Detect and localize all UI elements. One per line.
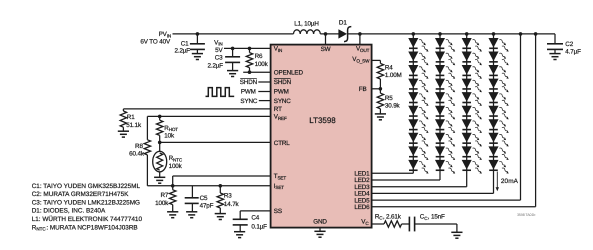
svg-text:C3: C3 — [215, 55, 223, 62]
svg-text:60.4k: 60.4k — [129, 151, 145, 158]
C4 value label — [251, 215, 267, 231]
svg-text:OPENLED: OPENLED — [274, 69, 304, 76]
wire TSET — [173, 176, 271, 186]
R3 value label — [224, 193, 240, 208]
resistor RC — [384, 221, 402, 227]
pin label RT — [274, 106, 282, 113]
resistor R8 — [144, 140, 150, 186]
wire VIN 5V to pin — [224, 47, 271, 49]
ground GND pin — [314, 228, 325, 237]
svg-text:R3: R3 — [224, 193, 232, 200]
svg-text:SHDN: SHDN — [240, 79, 258, 86]
resistor R5 — [377, 89, 383, 114]
PWM waveform symbol — [206, 88, 235, 97]
wire LED5 — [372, 199, 521, 201]
svg-text:SYNC: SYNC — [240, 98, 257, 105]
net VIN 5V label — [214, 39, 223, 54]
wire VOUT pin stub — [359, 34, 361, 45]
svg-text:SS: SS — [274, 208, 282, 215]
wire VREF — [147, 115, 270, 117]
wire SW pin stub — [325, 34, 327, 45]
svg-text:C5: C5 — [200, 195, 208, 202]
L1 value label — [294, 20, 319, 27]
svg-text:SHDN: SHDN — [274, 79, 292, 86]
resistor R1 — [118, 111, 129, 137]
pin label FB — [359, 86, 367, 93]
wire SS — [240, 211, 270, 219]
svg-text:R6: R6 — [255, 53, 263, 60]
R6 value label — [255, 53, 269, 68]
LED string 4 (10 LEDs) — [489, 32, 509, 193]
input label SYNC — [240, 98, 257, 105]
pin label VREF — [274, 114, 287, 121]
svg-text:5V: 5V — [215, 47, 223, 54]
capacitor CC — [409, 217, 414, 232]
svg-text:SW: SW — [321, 46, 331, 53]
wire VC to RC — [372, 223, 384, 225]
C5 value label — [200, 195, 214, 209]
svg-text:PWM: PWM — [241, 89, 256, 96]
wire VREF corner to R8 — [146, 116, 148, 139]
node RHOT top junction — [158, 115, 162, 119]
pin label SYNC — [274, 98, 291, 105]
pin label PWM — [274, 89, 289, 96]
svg-text:1.00M: 1.00M — [385, 72, 402, 79]
wire LED5 string stub — [519, 32, 523, 200]
wire CC to ground — [415, 224, 457, 232]
svg-text:R4: R4 — [385, 64, 393, 71]
node R3 junction — [219, 184, 223, 188]
wire LED3 — [372, 186, 467, 188]
pin label SS — [274, 208, 282, 215]
svg-text:RNTC : MURATA NCP18WF104J03RB: RNTC : MURATA NCP18WF104J03RB — [32, 224, 138, 231]
resistor R4 — [377, 63, 383, 88]
pin label LED6 — [354, 204, 370, 211]
svg-text:C2: MURATA GRM32ER71H475K: C2: MURATA GRM32ER71H475K — [32, 191, 129, 198]
node R6/OPENLED junction — [248, 70, 252, 74]
wire LED1 — [372, 172, 414, 174]
wire FB — [372, 88, 381, 90]
svg-text:C4: C4 — [251, 215, 259, 222]
svg-text:2.2µF: 2.2µF — [175, 48, 191, 55]
wire RT — [123, 109, 270, 111]
pin label LED5 — [354, 197, 370, 204]
wire SYNC stub — [259, 100, 271, 102]
wire RC to CC — [402, 223, 410, 225]
capacitor C1 — [190, 34, 205, 60]
capacitor C5 — [185, 186, 199, 218]
svg-text:SYNC: SYNC — [274, 98, 291, 105]
node SW junction — [324, 32, 328, 36]
wire LED2 — [372, 179, 440, 181]
svg-text:C2: C2 — [565, 41, 573, 48]
svg-text:LED6: LED6 — [354, 204, 370, 211]
svg-text:D1: DIODES, INC. B240A: D1: DIODES, INC. B240A — [32, 208, 106, 215]
node R6 junction — [248, 47, 252, 51]
svg-text:4.7µF: 4.7µF — [565, 49, 581, 56]
svg-text:PWM: PWM — [274, 89, 289, 96]
svg-text:D1: D1 — [339, 19, 347, 26]
LED string 2 (10 LEDs) — [436, 32, 456, 180]
svg-text:LT3598: LT3598 — [309, 116, 336, 125]
pin label LED4 — [354, 191, 370, 198]
wire PWM stub — [258, 91, 270, 93]
watermark — [517, 213, 535, 217]
node FB junction — [379, 87, 383, 91]
node VOUT junction — [358, 32, 362, 36]
current arrow 20mA — [496, 172, 499, 192]
svg-text:L1, 10µH: L1, 10µH — [294, 20, 319, 27]
R7 value label — [155, 192, 169, 207]
wire VOUT rail right segment — [348, 33, 555, 35]
R4 value label — [385, 64, 402, 79]
input label SHDN(bar) — [240, 79, 258, 87]
wire LED4 — [372, 192, 494, 194]
pin label SW — [321, 46, 331, 53]
pin label VO_SW — [352, 56, 370, 63]
svg-text:RT: RT — [274, 106, 282, 113]
pin label ISET — [274, 183, 284, 190]
svg-text:14.7k: 14.7k — [224, 201, 240, 208]
svg-text:51.1k: 51.1k — [126, 122, 142, 129]
resistor R6 — [246, 48, 252, 72]
RC value label — [375, 213, 402, 220]
resistor RHOT — [157, 116, 163, 142]
R1 value label — [126, 114, 142, 129]
node R7 junction — [171, 184, 175, 188]
svg-text:20mA: 20mA — [501, 178, 519, 185]
RNTC value label — [169, 155, 183, 170]
svg-text:6V TO 40V: 6V TO 40V — [140, 39, 171, 46]
wire CTRL — [160, 141, 271, 143]
LED string 1 (10 LEDs) — [409, 32, 429, 174]
node C3 junction — [231, 47, 235, 51]
node CTRL junction — [158, 141, 162, 145]
node PVIN/C1 junction — [196, 32, 200, 36]
ground VC network — [451, 232, 462, 238]
pin label TSET — [274, 173, 287, 180]
pin label LED3 — [354, 184, 370, 191]
pin label LED1 — [354, 171, 370, 178]
C1 value label — [175, 41, 191, 55]
svg-text:3598 TA01b: 3598 TA01b — [517, 213, 535, 217]
svg-text:CTRL: CTRL — [274, 140, 290, 147]
C3 value label — [208, 55, 224, 70]
resistor R7 — [167, 186, 178, 218]
svg-text:2.2µF: 2.2µF — [208, 62, 224, 69]
pin label VOUT — [356, 46, 370, 53]
pin label VC — [361, 219, 369, 226]
inductor L1 — [294, 30, 321, 34]
pin label LED2 — [354, 177, 370, 184]
capacitor C4 — [233, 219, 248, 237]
capacitor C2 — [547, 44, 563, 60]
svg-text:R1: R1 — [127, 114, 135, 121]
pin label GND — [313, 219, 327, 226]
wire SHDN stub — [258, 81, 270, 83]
svg-text:GND: GND — [313, 219, 327, 226]
C2 value label — [565, 41, 581, 56]
pin label CTRL — [274, 140, 290, 147]
svg-text:C1: TAIYO YUDEN GMK325BJ225ML: C1: TAIYO YUDEN GMK325BJ225ML — [32, 183, 141, 190]
resistor R3 — [215, 186, 226, 220]
net PVIN label — [140, 31, 171, 45]
svg-text:10k: 10k — [164, 132, 175, 139]
svg-text:R7: R7 — [160, 192, 168, 199]
svg-text:R8: R8 — [135, 143, 143, 150]
pin label SHDN(bar) — [274, 79, 292, 87]
svg-text:100k: 100k — [255, 61, 269, 68]
wire LED6 — [372, 206, 536, 208]
svg-text:47pF: 47pF — [200, 202, 214, 209]
pin label VIN — [274, 46, 282, 53]
wire VO_SW — [372, 60, 381, 63]
CC value label — [420, 214, 445, 221]
ground R5 — [375, 114, 386, 120]
svg-text:100k: 100k — [155, 200, 169, 207]
svg-text:0.1µF: 0.1µF — [251, 224, 267, 231]
svg-text:C1: C1 — [181, 41, 189, 48]
LED string 3 (10 LEDs) — [462, 32, 482, 187]
svg-text:30.9k: 30.9k — [385, 103, 401, 110]
U1 part number label — [309, 116, 336, 125]
20mA label — [501, 178, 519, 185]
wire PVIN rail left segment — [173, 33, 294, 35]
parts list note — [32, 183, 143, 232]
svg-text:C3: TAIYO YUDEN LMK212BJ225MG: C3: TAIYO YUDEN LMK212BJ225MG — [32, 199, 140, 206]
svg-text:L1: WÜRTH ELEKTRONIK 744777410: L1: WÜRTH ELEKTRONIK 744777410 — [32, 215, 143, 223]
svg-text:FB: FB — [359, 86, 367, 93]
wire ISET — [147, 185, 270, 187]
svg-text:RC , 2.61k: RC , 2.61k — [375, 213, 402, 220]
RHOT value label — [164, 125, 178, 140]
svg-text:CC , 15nF: CC , 15nF — [420, 214, 445, 221]
input label PWM — [241, 89, 256, 96]
capacitor C3 — [225, 48, 240, 76]
pin label OPENLED — [274, 69, 304, 76]
svg-text:R5: R5 — [385, 95, 393, 102]
R5 value label — [385, 95, 401, 110]
D1 label — [339, 19, 347, 26]
wire LED6 string stub — [534, 32, 538, 207]
op-amp U1 LT3598 IC body — [271, 45, 372, 228]
wire rail corner to C2 — [554, 34, 556, 44]
wire OPENLED — [243, 71, 270, 73]
wire L1 to D1 — [320, 33, 339, 35]
svg-text:100k: 100k — [169, 163, 183, 170]
thermistor RNTC — [153, 142, 167, 183]
R8 value label — [129, 143, 145, 158]
diode D1 (Schottky) — [339, 27, 352, 42]
